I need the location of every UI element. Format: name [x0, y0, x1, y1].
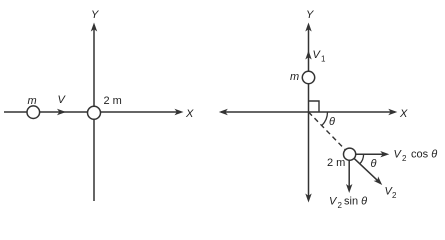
svg-text:sin θ: sin θ — [344, 196, 367, 208]
angle arc theta at 2m ball — [360, 154, 364, 164]
svg-text:θ: θ — [371, 158, 377, 170]
arrow: velocity V of mass m — [57, 109, 66, 115]
svg-text:cos θ: cos θ — [411, 149, 437, 161]
svg-text:Y: Y — [306, 9, 314, 21]
mass m ball (left) — [27, 106, 40, 119]
label V1 — [313, 49, 327, 64]
svg-text:2: 2 — [402, 154, 407, 163]
arrow: V2 (along 45 degrees down-right) — [350, 154, 383, 185]
arrow: V2 sin theta (vertical down from 2m ball) — [346, 154, 352, 193]
svg-text:X: X — [185, 108, 194, 120]
mass m ball (right, above origin) — [302, 71, 314, 83]
svg-text:2: 2 — [392, 191, 397, 200]
label V2 sin theta — [329, 196, 367, 211]
svg-text:1: 1 — [321, 55, 326, 64]
svg-text:2: 2 — [338, 201, 343, 210]
svg-text:θ: θ — [329, 116, 335, 128]
svg-text:2 m: 2 m — [104, 95, 122, 107]
wire: left X axis — [4, 109, 184, 115]
arrow: velocity V1 of mass m (up along Y) — [305, 51, 311, 60]
wire: left Y axis — [91, 23, 97, 202]
svg-text:2 m: 2 m — [327, 157, 345, 169]
mass 2m ball at origin (left) — [88, 106, 101, 119]
label V2 — [385, 186, 398, 201]
svg-text:m: m — [290, 71, 299, 83]
label V2 cos theta — [394, 149, 438, 164]
right-angle marker at origin — [309, 101, 320, 112]
wire: right X axis (arrows both ends) — [219, 109, 397, 115]
svg-text:m: m — [28, 95, 37, 107]
wire: right Y axis (arrows both ends) — [305, 23, 311, 203]
dashed trajectory line from origin to 2m ball — [309, 112, 350, 154]
svg-text:Y: Y — [91, 9, 99, 21]
angle arc theta at origin — [322, 112, 328, 125]
arrow: V2 cos theta (horizontal from 2m ball) — [350, 151, 390, 157]
svg-text:X: X — [399, 108, 408, 120]
mass 2m ball (right) — [344, 148, 356, 160]
